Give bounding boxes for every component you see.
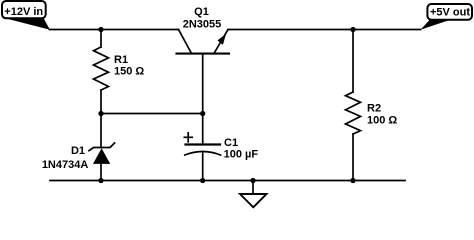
node flag +5V out [421,4,473,30]
svg-text:100 Ω: 100 Ω [367,115,397,127]
svg-text:150 Ω: 150 Ω [114,66,144,78]
node junction top-left (R1 tap) [98,27,103,32]
svg-text:C1: C1 [224,137,238,149]
svg-text:+5V out: +5V out [430,7,470,19]
node junction bottom-middle (C1) [200,178,205,183]
node junction top-right (R2 tap) [350,27,355,32]
transistor Q1 [177,30,230,114]
svg-text:Q1: Q1 [194,6,209,18]
node junction ground tap [250,178,255,183]
wire top rail right (Q1 emitter to +5V out) [228,29,421,31]
node junction bottom (R2) [350,178,355,183]
wire middle (R1/D1 node to Q1 base/C1 node) [101,113,203,115]
node flag +12V in [2,1,50,30]
node junction middle-left [98,111,103,116]
svg-text:+12V in: +12V in [4,6,43,18]
wire top rail left (+12V to Q1 collector) [50,29,179,31]
diode D1 zener [89,114,115,181]
capacitor C1 [184,114,220,181]
svg-text:2N3055: 2N3055 [183,19,222,31]
svg-text:R2: R2 [367,103,381,115]
resistor R2 [346,30,361,181]
wire bottom rail [50,180,405,182]
svg-text:100 µF: 100 µF [224,149,259,161]
node junction middle-right [200,111,205,116]
svg-text:1N4734A: 1N4734A [42,159,89,171]
node junction bottom-left (D1) [98,178,103,183]
resistor R1 [94,30,109,114]
ground [240,181,267,208]
svg-text:D1: D1 [71,145,85,157]
svg-text:R1: R1 [114,54,128,66]
